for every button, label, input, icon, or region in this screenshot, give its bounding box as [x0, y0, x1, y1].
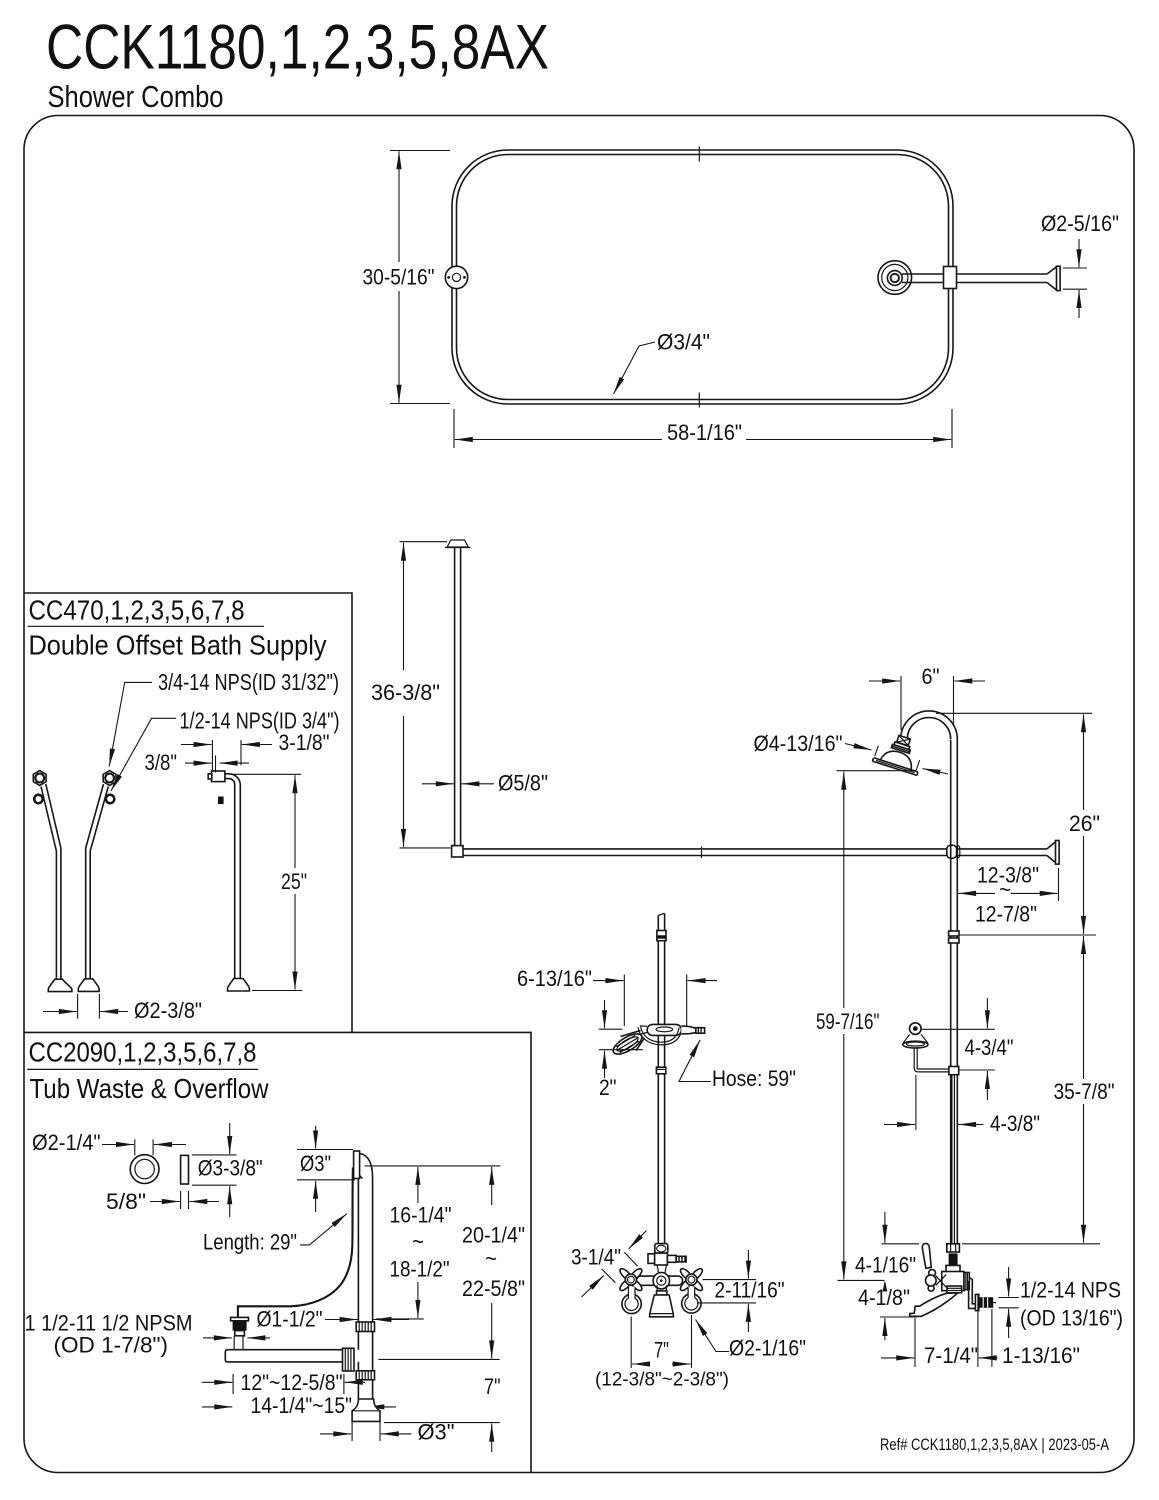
svg-text:1-13/16": 1-13/16"	[1002, 1343, 1080, 1368]
overflow face plate	[354, 1151, 360, 1179]
ceiling flange	[447, 540, 468, 547]
spout collar	[657, 1291, 667, 1295]
dim OD13/16 ext lines	[998, 1298, 1018, 1308]
svg-text:58-1/16": 58-1/16"	[667, 420, 742, 445]
dim 2 arrows	[604, 1000, 606, 1028]
supply pipe 1 small ring	[34, 795, 42, 803]
dim 25 arrow line	[294, 775, 296, 989]
svg-text:3/8": 3/8"	[145, 750, 178, 775]
dim 4-3/4 ext lines	[921, 1029, 995, 1070]
dim text 6	[918, 665, 942, 688]
dim 20-1/4~22-5/8 arrows	[491, 1167, 493, 1205]
dim text 26	[1066, 810, 1102, 836]
head dome	[880, 747, 915, 769]
center boss	[653, 1273, 669, 1289]
CC2090 title underline	[27, 1068, 258, 1070]
svg-text:12-7/8": 12-7/8"	[975, 902, 1037, 927]
dim text 25	[277, 868, 311, 894]
supply pipe 2 hex nut	[103, 771, 116, 786]
svg-text:14-1/4"~15": 14-1/4"~15"	[251, 1393, 353, 1418]
dim 2-11/16 ext lines	[697, 1280, 756, 1303]
head face rim	[872, 758, 918, 776]
dim 12~12-5/8 ticks	[233, 1374, 344, 1394]
tub spout (side)	[910, 1293, 958, 1316]
valve body	[942, 1272, 964, 1291]
hand shower hose (side view)	[951, 1075, 953, 1244]
svg-text:~: ~	[412, 1229, 424, 1254]
diverter body	[655, 1253, 668, 1265]
label Ø4-13/16 leaders	[845, 744, 872, 751]
drain tailpiece	[235, 1331, 245, 1336]
svg-text:Ø2-3/8": Ø2-3/8"	[134, 998, 202, 1023]
label 3/4-14 NPS leader	[109, 682, 152, 766]
dim 4-1/16 arrows	[884, 1212, 886, 1243]
svg-text:(OD 1-7/8"): (OD 1-7/8")	[54, 1333, 169, 1358]
right cross handle	[679, 1267, 704, 1292]
svg-text:(OD 13/16"): (OD 13/16")	[1020, 1306, 1123, 1331]
hand shower neck	[640, 1026, 647, 1034]
dim 4-3/8 ext line	[915, 1075, 917, 1130]
svg-text:2-11/16": 2-11/16"	[715, 1278, 785, 1303]
wall support rod	[902, 273, 1047, 275]
svg-text:18-1/2": 18-1/2"	[390, 1257, 450, 1282]
arm fitting at riser	[949, 1067, 959, 1075]
rail wall flange (trumpet)	[1047, 842, 1056, 863]
dim text 59-7/16	[812, 1008, 884, 1034]
label Ø2-1/16 leader	[696, 1320, 730, 1352]
dim text 35-7/8	[1050, 1079, 1118, 1104]
svg-text:Hose: 59": Hose: 59"	[712, 1066, 796, 1091]
rail joint tick	[701, 847, 703, 859]
svg-text:3-1/4": 3-1/4"	[571, 1245, 621, 1270]
gooseneck	[901, 711, 958, 742]
dim 30-5/16 arrows	[398, 151, 400, 262]
svg-text:4-1/16": 4-1/16"	[855, 1253, 916, 1278]
svg-text:Ø3/4": Ø3/4"	[657, 330, 710, 355]
supply pipe 2 foot	[78, 979, 99, 992]
supply pipe 2 small ring	[106, 795, 114, 803]
ext line valve center	[838, 1279, 885, 1281]
faucet top nut	[655, 1244, 668, 1254]
svg-text:Ref# CCK1180,1,2,3,5,8AX | 202: Ref# CCK1180,1,2,3,5,8AX | 2023-05-A	[880, 1435, 1109, 1454]
svg-text:Ø2-1/16": Ø2-1/16"	[729, 1336, 806, 1361]
dim Ø3-3/8 arrows	[229, 1123, 231, 1154]
head collar bands	[894, 742, 910, 750]
svg-text:~: ~	[485, 1246, 497, 1271]
dim Ø3-3/8 ext lines	[192, 1155, 237, 1185]
dim 3-1/4 arrows	[629, 1231, 647, 1249]
wall flange disc	[975, 1294, 978, 1310]
pipe union below cradle	[656, 1067, 665, 1074]
dim 36-3/8 arrows	[403, 543, 405, 670]
riser coupling rings	[949, 931, 959, 936]
svg-text:4-1/8": 4-1/8"	[858, 1285, 910, 1310]
svg-text:30-5/16": 30-5/16"	[363, 265, 435, 290]
dim 4-3/8 arrows	[884, 1124, 915, 1126]
dim Ø3 bottom arrows	[320, 1433, 351, 1435]
dim 3-1/4 ticks	[602, 1252, 638, 1282]
side pipe nut	[212, 771, 225, 782]
dim 16-1/4~18-1/2 arrows	[417, 1167, 419, 1203]
svg-text:CC470,1,2,3,5,6,7,8: CC470,1,2,3,5,6,7,8	[29, 594, 245, 625]
dim Ø3 top arrows	[315, 1126, 317, 1149]
dim Ø5/8 arrows	[422, 783, 454, 785]
dim 59-7/16 ext line	[837, 770, 916, 772]
dim 12-3/8~12-7/8 line	[958, 892, 1058, 894]
dim 58-1/16 arrows	[455, 439, 662, 441]
dim 12~12-5/8 arrows	[202, 1381, 232, 1383]
svg-text:6": 6"	[922, 664, 940, 689]
spout cone	[650, 1295, 674, 1317]
dim 20 bottom ext line (tee center)	[378, 1358, 499, 1360]
label Length 29 leader	[300, 1214, 347, 1245]
svg-text:20-1/4": 20-1/4"	[462, 1223, 525, 1248]
rod joint tick top	[698, 147, 700, 162]
nipple tip line	[993, 1302, 996, 1304]
drain strainer body (black)	[233, 1321, 247, 1331]
svg-text:7": 7"	[654, 1338, 669, 1363]
svg-text:(12-3/8"~2-3/8"): (12-3/8"~2-3/8")	[595, 1369, 729, 1391]
waste tee nut	[343, 1348, 355, 1371]
svg-text:36-3/8": 36-3/8"	[371, 680, 440, 705]
svg-text:Length: 29": Length: 29"	[203, 1230, 297, 1255]
overflow elbow	[360, 1154, 373, 1179]
svg-text:Ø5/8": Ø5/8"	[498, 771, 548, 796]
svg-text:Ø2-5/16": Ø2-5/16"	[1041, 211, 1119, 236]
dim Ø2-1/4 ticks	[135, 1139, 153, 1155]
svg-text:Ø4-13/16": Ø4-13/16"	[754, 731, 843, 756]
pipe top cap	[658, 913, 664, 915]
overflow base flare	[352, 1399, 380, 1421]
dim 3/8 arrows	[185, 762, 212, 764]
supply pipe 2	[86, 784, 109, 851]
dim Ø2-3/8 arrows	[43, 1011, 77, 1013]
svg-text:59-7/16": 59-7/16"	[816, 1009, 880, 1034]
dim Ø3 top ext lines	[297, 1150, 355, 1180]
dim 4-1/8 arrow	[884, 1318, 886, 1340]
hose nipple (right)	[667, 1255, 676, 1262]
dim 6 ext lines	[901, 676, 954, 730]
svg-text:CC2090,1,2,3,5,6,7,8: CC2090,1,2,3,5,6,7,8	[29, 1036, 257, 1067]
svg-text:2": 2"	[599, 1075, 617, 1100]
curtain rod inner tube line	[457, 155, 949, 400]
svg-text:3-1/8": 3-1/8"	[279, 730, 330, 755]
svg-text:26": 26"	[1069, 811, 1100, 836]
cradle arm	[914, 1048, 949, 1072]
horizontal curtain rail (side view)	[463, 848, 1047, 850]
thread seal (black)	[949, 1253, 958, 1265]
svg-text:6-13/16": 6-13/16"	[517, 966, 592, 991]
svg-text:Ø3": Ø3"	[300, 1151, 331, 1176]
svg-text:Ø1-1/2": Ø1-1/2"	[257, 1307, 323, 1332]
CC470 title underline	[28, 625, 265, 627]
right supply coupling	[682, 1294, 701, 1313]
dim 6-13/16 arrows	[593, 980, 624, 982]
hand shower bell (side)	[903, 1034, 928, 1043]
dim 14-1/4~15 tick	[365, 1400, 367, 1411]
dim 6 arrows	[869, 680, 900, 682]
dim Ø2-5/16 ext lines	[1063, 268, 1087, 289]
dim 3/8 tick	[215, 756, 217, 773]
dim 7-1/4 arrows	[881, 1357, 914, 1359]
rail clamp at riser	[947, 845, 957, 858]
svg-text:Double Offset Bath Supply: Double Offset Bath Supply	[29, 630, 327, 661]
cradle body capsule	[647, 1024, 681, 1035]
cross handle (side)	[929, 1270, 936, 1277]
label Hose: 59 leader	[679, 1040, 711, 1082]
ceiling drop rod	[454, 548, 456, 847]
svg-text:35-7/8": 35-7/8"	[1054, 1079, 1115, 1104]
rod clamp at curtain rail	[944, 267, 957, 289]
CC470 box frame	[24, 593, 531, 1472]
side pipe bracket (black)	[218, 797, 224, 805]
dim 6-13/16 ext lines	[624, 975, 686, 1027]
pipe coupling below tee	[356, 1371, 374, 1380]
waste pipe left elbow	[225, 1350, 230, 1362]
dim 2-11/16 arrows	[747, 1250, 749, 1279]
label 1/2-14 NPS leader	[111, 718, 176, 791]
dim 58-1/16 ext lines	[454, 409, 952, 448]
dim 25 ext lines	[231, 774, 302, 990]
svg-text:7-1/4": 7-1/4"	[924, 1343, 978, 1368]
riser coupling bands	[657, 931, 666, 941]
svg-text:3/4-14 NPS(ID 31/32"): 3/4-14 NPS(ID 31/32")	[158, 669, 339, 695]
svg-text:1/2-14 NPS: 1/2-14 NPS	[1020, 1278, 1121, 1303]
pipe union ring	[356, 1322, 374, 1332]
dim Ø2-1/4 arrows	[102, 1144, 134, 1146]
gasket bar	[181, 1155, 189, 1184]
drain neck	[234, 1336, 243, 1350]
dim 36-3/8 ext lines	[400, 542, 451, 848]
lower nut	[946, 1265, 960, 1273]
dim 2 ext lines	[599, 1029, 643, 1050]
body column	[657, 1265, 666, 1274]
dim 4-3/4 arrows	[986, 998, 988, 1028]
dim 16-1/4~18-1/2 ext lines	[365, 1166, 501, 1319]
side pipe elbow and drop	[225, 774, 240, 979]
supply pipe 1 foot	[48, 979, 72, 991]
hand shower head (front)	[621, 1031, 641, 1037]
dim Ø2-5/16 arrows	[1078, 239, 1080, 267]
spout collar	[947, 1286, 962, 1293]
dim 26 arrow line	[1083, 714, 1085, 934]
dim Ø1-1/2 arrows	[325, 1319, 358, 1321]
svg-text:5/8": 5/8"	[106, 1189, 146, 1214]
spout neck	[657, 1285, 666, 1291]
svg-text:7": 7"	[484, 1374, 501, 1399]
dim 35-7/8 arrow line	[1083, 936, 1085, 1243]
svg-text:4-3/8": 4-3/8"	[990, 1111, 1040, 1136]
dim 7 arrow	[491, 1424, 493, 1452]
diverter handle (left)	[648, 1254, 656, 1264]
dim 5/8 ticks	[181, 1191, 189, 1209]
rod elbow	[452, 846, 463, 857]
cradle knob	[910, 1023, 922, 1035]
svg-text:12"~12-5/8": 12"~12-5/8"	[241, 1370, 343, 1395]
curtain rod outer tube line	[452, 150, 953, 404]
wall bracket hub circles (top view, right)	[878, 261, 912, 295]
valve end ridges	[964, 1273, 969, 1290]
side pipe foot	[228, 979, 250, 992]
svg-text:Ø3": Ø3"	[418, 1420, 455, 1445]
dim OD1-7/8 arrows	[203, 1337, 232, 1339]
svg-text:25": 25"	[281, 869, 307, 894]
waste pipe (horizontal)	[231, 1350, 343, 1362]
dim 7 arrows	[632, 1363, 650, 1365]
supply pipe 1	[41, 784, 61, 851]
dim 30-5/16 ext lines	[390, 151, 450, 404]
svg-text:Shower Combo: Shower Combo	[48, 79, 224, 114]
supply pipe 1 hex nut	[33, 771, 46, 786]
dim 7-1/4 ext lines	[915, 1294, 992, 1368]
dim 3-1/8 ext lines	[212, 740, 241, 771]
washer ring	[130, 1155, 159, 1184]
label Ø3/4 leader	[614, 342, 656, 394]
front riser pipe	[657, 916, 659, 1244]
faucet body bar	[636, 1276, 682, 1285]
dim Ø2-3/8 ticks	[78, 994, 100, 1019]
cradle yoke	[638, 1027, 682, 1045]
threaded nipple (black)	[979, 1297, 993, 1308]
svg-text:CCK1180,1,2,3,5,8AX: CCK1180,1,2,3,5,8AX	[46, 13, 549, 83]
dim 59-7/16 arrow line	[843, 772, 845, 1280]
left supply coupling	[622, 1294, 641, 1313]
svg-text:Ø3-3/8": Ø3-3/8"	[198, 1156, 263, 1181]
head nut	[897, 735, 911, 745]
dim Ø3 bottom ticks	[352, 1422, 380, 1441]
dim 14-1/4~15 arrows	[202, 1406, 232, 1408]
dim 7 ext lines	[631, 1315, 691, 1368]
wall flange (trumpet)	[1047, 267, 1057, 290]
svg-text:4-3/4": 4-3/4"	[965, 1035, 1014, 1060]
diverter nozzle (right of cradle)	[681, 1026, 696, 1034]
overflow pipe	[358, 1179, 372, 1323]
svg-text:22-5/8": 22-5/8"	[462, 1276, 525, 1301]
rod joint tick bottom	[698, 393, 700, 408]
dim 4-1/8 ext line	[880, 1316, 917, 1318]
dim OD13/16 arrows	[1008, 1267, 1010, 1297]
svg-text:Ø2-1/4": Ø2-1/4"	[32, 1130, 101, 1155]
dim 3-1/8 arrows	[181, 744, 212, 746]
dim 7 ext line (base bottom)	[384, 1422, 500, 1424]
diverter lever (side)	[922, 1244, 931, 1269]
riser pipe	[950, 740, 952, 1244]
left cross handle	[618, 1267, 643, 1292]
ceiling support flange (top view, left)	[445, 266, 467, 288]
shower head (tilted bell with collar and nut)	[872, 730, 927, 775]
drain strainer flange	[231, 1317, 249, 1320]
ext line lever top	[881, 1243, 1100, 1245]
svg-text:Tub Waste & Overflow: Tub Waste & Overflow	[30, 1073, 269, 1104]
svg-text:~: ~	[999, 877, 1011, 902]
svg-text:16-1/4": 16-1/4"	[390, 1203, 452, 1228]
dim 5/8 arrows	[150, 1201, 180, 1203]
wall crank arm	[969, 1278, 976, 1309]
flexible hose	[238, 1168, 353, 1318]
dim 26 ext lines	[936, 713, 1096, 935]
faucet top nut	[947, 1244, 960, 1252]
